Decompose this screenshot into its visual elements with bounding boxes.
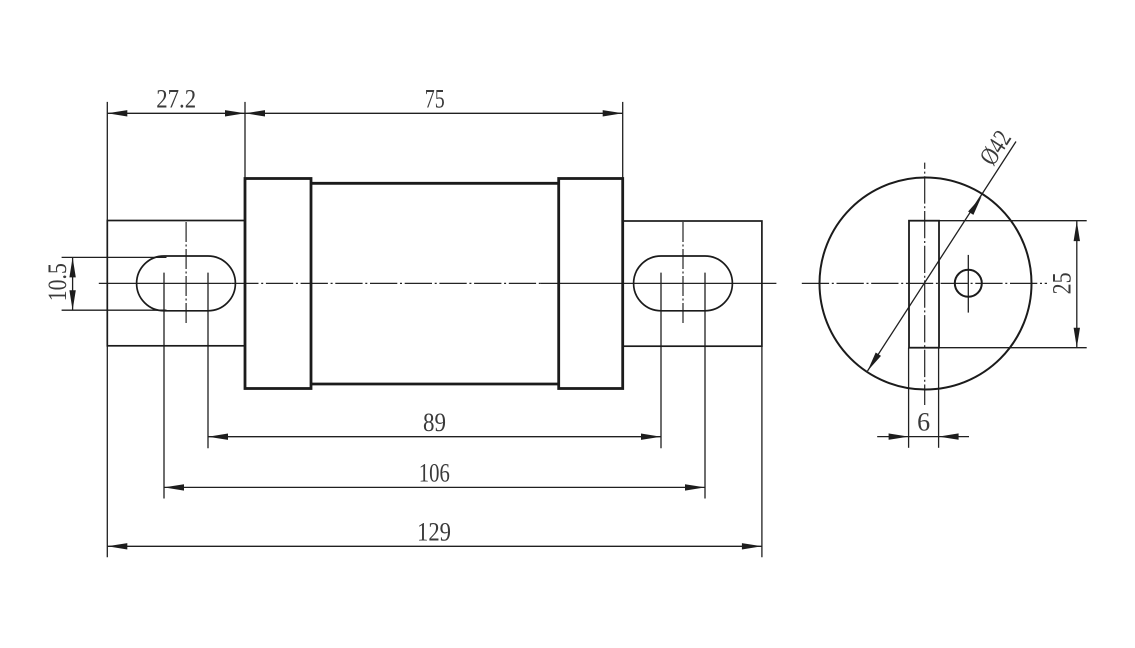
- svg-text:106: 106: [419, 458, 450, 487]
- svg-text:75: 75: [425, 85, 445, 114]
- svg-text:10.5: 10.5: [43, 263, 72, 301]
- svg-text:89: 89: [423, 408, 446, 437]
- svg-text:6: 6: [917, 408, 930, 437]
- svg-text:25: 25: [1048, 272, 1077, 294]
- svg-text:27.2: 27.2: [156, 85, 196, 114]
- svg-text:129: 129: [417, 517, 451, 546]
